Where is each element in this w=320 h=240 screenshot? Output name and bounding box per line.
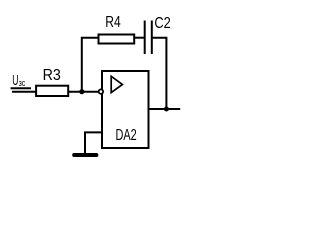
op-amp DA2 body: [102, 71, 149, 148]
wire: R3 to inverting input: [68, 91, 98, 93]
wire: non-inverting input: [85, 131, 102, 133]
node B (output junction dot): [164, 107, 169, 112]
svg-text:R3: R3: [43, 67, 61, 84]
input label Uzs: [12, 72, 25, 89]
amplifier triangle: [111, 76, 122, 92]
ground: [74, 153, 96, 157]
resistor R4: [99, 35, 135, 44]
input terminal underline: [11, 87, 31, 89]
svg-text:R4: R4: [105, 14, 120, 31]
node A (feedback tap junction): [79, 89, 84, 94]
wire: ground riser: [84, 131, 86, 154]
capacitor C2 right plate: [151, 21, 153, 55]
wire: output: [149, 108, 180, 110]
wire: R4 to C2: [134, 37, 144, 39]
svg-text:DA2: DA2: [116, 127, 137, 144]
wire: input to R3: [12, 91, 36, 93]
inverting input bubble: [99, 89, 103, 93]
wire: feedback riser and top run to R4: [82, 38, 99, 92]
wire: C2 to output junction (corner): [152, 38, 166, 109]
resistor R3: [36, 86, 68, 96]
svg-text:U: U: [12, 72, 18, 89]
svg-text:C2: C2: [154, 15, 170, 32]
svg-text:зс: зс: [19, 78, 26, 88]
capacitor C2 left plate: [144, 21, 146, 55]
